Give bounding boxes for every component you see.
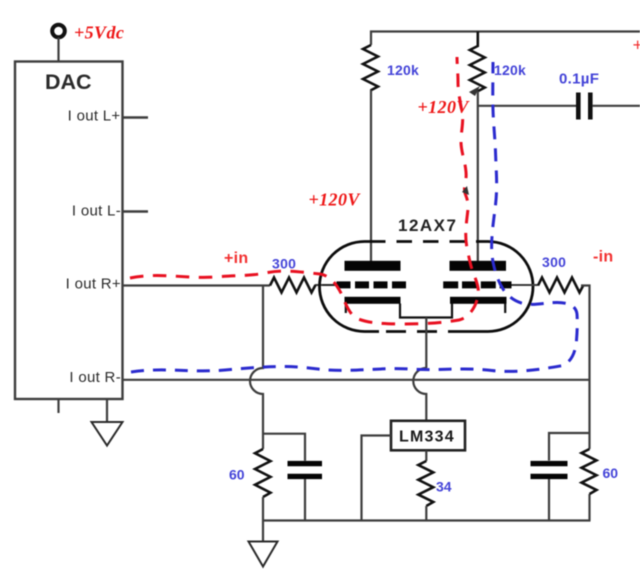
wire -in corner down right branch (581, 286, 590, 521)
ground under DAC (92, 422, 123, 446)
label DAC (45, 70, 92, 94)
pin label I out R+ (66, 276, 121, 293)
wire I out R- horizontal (123, 379, 590, 381)
red path arrowhead 2 (469, 86, 480, 96)
svg-text:60: 60 (603, 465, 619, 481)
svg-text:120k: 120k (387, 62, 419, 78)
tube envelope dashed top (370, 240, 477, 243)
plate left (345, 261, 401, 271)
svg-text:I out R+: I out R+ (66, 276, 121, 293)
left RC branch tee (263, 434, 305, 461)
wire I out R+ to resistor 300 left (123, 284, 270, 286)
label 60 right (603, 465, 619, 481)
resistor R34 (418, 461, 433, 506)
svg-text:I out L+: I out L+ (68, 108, 121, 125)
resistor R60 right (582, 449, 597, 494)
label 60 left (229, 467, 245, 483)
svg-text:I out L-: I out L- (72, 203, 121, 220)
svg-text:-in: -in (593, 249, 613, 266)
LM334 bottom pin (425, 450, 427, 461)
resistor R300 right (538, 278, 584, 293)
svg-text:60: 60 (229, 467, 245, 483)
capacitor C 0.1uF (578, 93, 590, 120)
pin label I out L- (72, 203, 121, 220)
label + (cut off) (633, 35, 640, 55)
LM334 left pin wire (362, 436, 392, 521)
pin label I out R- (69, 369, 121, 386)
blue annotation path (- signal) (131, 62, 577, 372)
pin stub I out L+ (123, 116, 148, 118)
bottom rail (263, 519, 591, 521)
cathode right outer leg (504, 304, 506, 314)
label 300 right (542, 254, 566, 270)
wire 120k left to left plate (370, 90, 372, 261)
svg-text:12AX7: 12AX7 (398, 216, 457, 235)
resistor R300 left (270, 278, 316, 293)
pin label I out L+ (68, 108, 121, 125)
svg-text:DAC: DAC (45, 70, 92, 94)
tube V1 envelope solid right (466, 242, 533, 332)
tube envelope dashed bottom (386, 330, 466, 333)
ground stub bottom (262, 521, 264, 542)
wire junction to coupling cap (478, 105, 576, 107)
svg-text:LM334: LM334 (399, 429, 455, 446)
label 34 (436, 479, 452, 495)
label +in (224, 250, 248, 267)
wire 120k right to right plate (477, 91, 479, 261)
svg-text:34: 34 (436, 479, 452, 495)
label +120V upper (418, 97, 471, 117)
grid left (dashed) (337, 281, 407, 288)
wire tube grid right to resistor 300 right (530, 284, 538, 286)
cathode tail wire (425, 318, 427, 369)
DAC bottom stub left (57, 399, 59, 413)
label LM334 (399, 429, 455, 446)
label -in (593, 249, 613, 266)
svg-text:+: + (633, 35, 640, 55)
red annotation path (+ signal) (130, 57, 478, 324)
wire R34 to rail (425, 506, 427, 521)
resistor R60 left (255, 449, 271, 497)
svg-text:300: 300 (542, 254, 566, 270)
DAC box U1 (15, 62, 123, 400)
pin stub I out L- (123, 210, 148, 212)
svg-text:+in: +in (224, 250, 248, 267)
label 120k left (387, 62, 419, 78)
wire terminal to DAC (57, 38, 59, 62)
top power rail (371, 32, 640, 46)
cathode left (345, 297, 401, 304)
capacitor right (531, 464, 568, 477)
svg-text:+5Vdc: +5Vdc (74, 23, 124, 43)
wire junction R+ down branch (with hop over R- wire) (250, 286, 263, 450)
capacitor left (288, 464, 323, 477)
label +120V left (309, 190, 362, 210)
svg-text:I out R-: I out R- (69, 369, 121, 386)
resistor R 120k right (470, 32, 485, 92)
cathode right (450, 297, 507, 304)
resistor R 120k left (363, 45, 378, 91)
label 300 left (272, 256, 296, 272)
grid right (dashed) (443, 281, 511, 288)
label 120k right (494, 62, 526, 78)
wire resistor 300 left to tube grid (315, 284, 337, 286)
label 0.1uF (559, 71, 599, 88)
label +5Vdc (74, 23, 124, 43)
terminal +5Vdc (52, 25, 65, 38)
label 12AX7 (398, 216, 457, 235)
wire cap to right edge (593, 105, 640, 107)
svg-text:0.1µF: 0.1µF (559, 71, 599, 88)
plate right (450, 261, 507, 271)
svg-text:120k: 120k (494, 62, 526, 78)
right RC branch tee (549, 433, 590, 461)
red path arrowhead 1 (462, 186, 469, 195)
grid lead right (512, 284, 531, 286)
capacitor left bottom wire (304, 479, 306, 521)
wire cathode hop down to LM334 (413, 368, 426, 421)
svg-text:+120V: +120V (309, 190, 362, 210)
cathode join path (400, 304, 452, 318)
cathode left outer leg (345, 304, 347, 314)
ground bottom (249, 542, 278, 567)
capacitor right bottom wire (548, 479, 550, 521)
DAC ground stub (106, 399, 108, 422)
svg-text:300: 300 (272, 256, 296, 272)
wire R60 left to rail (262, 497, 264, 521)
tube V1 envelope solid left (320, 242, 379, 332)
grid lead left (323, 284, 338, 286)
LM334 box (391, 421, 465, 451)
